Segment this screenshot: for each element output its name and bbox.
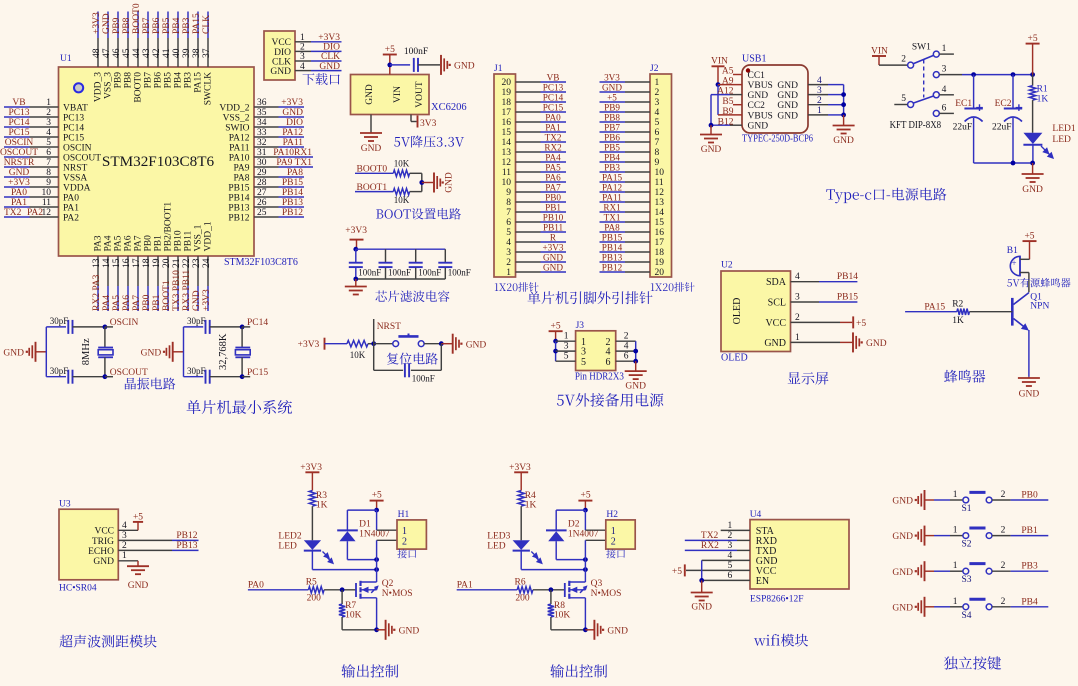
resistor 10K BOOT1 — [393, 188, 409, 204]
svg-text:PB0: PB0 — [545, 192, 561, 202]
ultrasonic U3 designator — [59, 500, 71, 510]
usb pin1 mark — [746, 68, 750, 72]
header J1 pin 12 net PA4 — [502, 152, 567, 168]
svg-text:2: 2 — [46, 108, 51, 118]
svg-text:J3: J3 — [576, 321, 585, 331]
svg-text:8: 8 — [46, 168, 51, 178]
svg-text:4: 4 — [817, 76, 822, 86]
usb pin A5 CC1 — [722, 67, 765, 81]
wire diode top — [556, 510, 585, 530]
svg-text:Pin HDR2X3: Pin HDR2X3 — [575, 372, 624, 383]
svg-text:PB15: PB15 — [228, 183, 249, 193]
svg-text:R6: R6 — [515, 577, 526, 587]
mcu pin 39 PB3 wire+net — [182, 12, 193, 89]
header J2 pin 2 net GND — [600, 82, 660, 98]
power +5 buzzer — [1023, 232, 1037, 260]
switch pin5 contact — [894, 94, 913, 108]
svg-text:LED: LED — [278, 542, 297, 552]
svg-text:PB8: PB8 — [122, 17, 132, 34]
net VIN label sw — [871, 47, 888, 57]
svg-text:45: 45 — [122, 48, 132, 58]
svg-text:6: 6 — [46, 148, 51, 158]
header J3 row 3/4 — [556, 342, 636, 358]
svg-text:10K: 10K — [345, 611, 362, 621]
crystal 32,768K body — [235, 327, 250, 377]
svg-text:3V3: 3V3 — [420, 119, 437, 129]
wire cap to node top 32,768K — [210, 326, 242, 328]
led LED1 arrows — [1041, 146, 1053, 158]
cap plates bottom 32,768K — [187, 366, 210, 384]
wire cap to node bottom 32,768K — [210, 376, 242, 378]
svg-text:PB3: PB3 — [604, 162, 620, 172]
svg-text:1: 1 — [655, 78, 660, 88]
mcu pin 17 PA7 wire+net — [132, 235, 143, 311]
ground earth at regulator — [360, 133, 382, 154]
header J2 pin 15 net TX1 — [600, 212, 665, 228]
svg-text:S2: S2 — [962, 540, 972, 550]
usb pin 4 GND right — [777, 76, 843, 91]
mcu pin 33 PA12 wire+net — [229, 128, 304, 143]
wire S2 to net — [992, 535, 1048, 537]
svg-text:GND: GND — [3, 348, 24, 358]
svg-text:PA0: PA0 — [545, 112, 561, 122]
wire gnd to S3 — [925, 570, 963, 572]
wire +5 to H1 pin1 — [377, 510, 397, 530]
svg-text:2: 2 — [624, 332, 629, 342]
mcu pin 48 VDD_3 wire+net — [92, 12, 103, 103]
download port pin 1 VCC — [271, 33, 341, 48]
svg-text:U3: U3 — [59, 500, 71, 510]
button S4 pin2 number — [1001, 597, 1006, 607]
svg-text:4: 4 — [122, 521, 127, 531]
mcu pin 2 PC13 wire+net — [4, 108, 84, 123]
button S2 pin1 number — [953, 526, 958, 536]
svg-text:GND: GND — [748, 122, 769, 132]
wire node to button — [374, 343, 393, 345]
wire gnd to S2 — [925, 535, 963, 537]
svg-text:VDD_2: VDD_2 — [219, 103, 249, 113]
wire diode top — [347, 510, 376, 530]
resistor R8 10K — [548, 590, 571, 630]
led LED3 labels — [487, 532, 510, 552]
gnd bars S3 — [892, 561, 924, 581]
oled GND wire — [791, 341, 853, 343]
header J3 part — [575, 372, 624, 383]
svg-text:PA0: PA0 — [11, 188, 27, 198]
net NRST vertical — [374, 319, 401, 344]
svg-text:GND: GND — [833, 136, 854, 146]
svg-text:PB6: PB6 — [152, 17, 162, 34]
caption buzzer — [944, 370, 985, 383]
svg-text:PA6: PA6 — [122, 295, 132, 311]
wire BOOT vertical — [421, 173, 423, 191]
wire diode bottom — [347, 541, 376, 559]
svg-text:PA11: PA11 — [283, 138, 304, 148]
svg-text:PB4: PB4 — [604, 152, 620, 162]
header J1 pin 11 net PA5 — [502, 162, 566, 178]
svg-text:16: 16 — [655, 228, 665, 238]
header J1 pin 8 net PB0 — [506, 192, 566, 208]
wire cap to node top 8MHz — [73, 326, 105, 328]
capacitor 30pF bottom 32,768K — [184, 376, 204, 378]
svg-text:12: 12 — [502, 158, 512, 168]
svg-text:PA9 TX1: PA9 TX1 — [276, 158, 312, 168]
svg-text:PA11: PA11 — [602, 192, 622, 202]
buzzer B1 body — [1010, 256, 1020, 275]
svg-text:6: 6 — [942, 103, 947, 113]
diode D1 1N4007 — [337, 520, 390, 542]
wire emitter down — [1028, 330, 1030, 377]
svg-text:GND: GND — [764, 338, 786, 349]
svg-text:4: 4 — [655, 108, 660, 118]
power +5 typec — [1026, 34, 1040, 75]
svg-text:TX1: TX1 — [604, 212, 621, 222]
caption reset circuit — [387, 353, 438, 365]
wire H1 pin2 to drain — [377, 540, 397, 581]
wifi U4 body — [750, 520, 849, 589]
mcu pin 18 PB0 wire+net — [142, 235, 153, 311]
svg-text:2: 2 — [795, 313, 800, 323]
svg-text:+5: +5 — [856, 319, 866, 329]
svg-text:B9: B9 — [722, 107, 733, 117]
capacitor 30pF bottom 8MHz — [46, 376, 66, 378]
svg-text:ECHO: ECHO — [88, 547, 114, 557]
svg-text:GND: GND — [319, 62, 340, 72]
net PA0 wire — [248, 581, 309, 591]
caption output control Q2 — [341, 664, 398, 677]
svg-text:+5: +5 — [672, 567, 682, 577]
svg-text:PB3: PB3 — [182, 17, 192, 34]
svg-text:OSCIN: OSCIN — [110, 318, 139, 328]
svg-text:PC13: PC13 — [543, 82, 564, 92]
regulator GND lead — [370, 115, 372, 134]
diode D2 1N4007 — [546, 520, 599, 542]
svg-text:15: 15 — [655, 218, 665, 228]
svg-text:8: 8 — [655, 148, 660, 158]
svg-text:NRST: NRST — [63, 163, 87, 173]
svg-text:GND: GND — [607, 626, 628, 636]
gnd bars crystal 32,768K — [141, 342, 173, 362]
led LED1 — [1023, 133, 1042, 163]
junction led bottom — [1030, 161, 1035, 166]
svg-text:VB: VB — [12, 98, 25, 108]
button S2 — [962, 528, 992, 550]
svg-text:14: 14 — [655, 208, 665, 218]
svg-text:22: 22 — [182, 258, 192, 268]
svg-text:42: 42 — [152, 48, 162, 58]
svg-text:21: 21 — [172, 258, 182, 268]
svg-text:PA12: PA12 — [602, 182, 622, 192]
svg-text:PB12: PB12 — [282, 208, 303, 218]
wifi pin 5 VCC — [686, 561, 777, 577]
svg-text:2: 2 — [300, 43, 305, 53]
svg-text:9: 9 — [506, 188, 511, 198]
header J2 pin 12 net PA12 — [600, 182, 665, 198]
svg-text:PB10: PB10 — [543, 212, 564, 222]
svg-text:H1: H1 — [398, 510, 410, 520]
mcu pin 45 PB8 wire+net — [122, 12, 133, 89]
junction top 8MHz — [103, 325, 108, 330]
svg-text:37: 37 — [202, 48, 212, 58]
svg-text:GND: GND — [748, 91, 769, 101]
wire A9-B9 vertical — [717, 85, 719, 115]
svg-text:CC1: CC1 — [748, 71, 766, 81]
svg-text:VDD_3: VDD_3 — [94, 72, 104, 102]
ultrasonic pin2 ECHO — [88, 541, 198, 557]
wire to gnd bars Q2 — [377, 629, 385, 631]
svg-text:30pF: 30pF — [187, 366, 206, 376]
svg-text:PB9: PB9 — [114, 72, 124, 89]
usb pin 1 GND right — [777, 106, 843, 121]
svg-text:PA5: PA5 — [112, 295, 122, 311]
svg-text:5: 5 — [901, 94, 906, 104]
resistor 10K BOOT0 — [393, 159, 409, 177]
svg-text:12: 12 — [655, 188, 665, 198]
svg-text:1: 1 — [300, 33, 305, 43]
buzzer name — [1007, 278, 1070, 287]
header J2 designator — [650, 64, 659, 74]
svg-text:D2: D2 — [568, 520, 580, 530]
svg-text:18: 18 — [655, 248, 665, 258]
svg-text:GND: GND — [892, 497, 913, 507]
wire B12 to earth — [710, 125, 712, 134]
mcu pin 36 VDD_2 wire+net — [219, 98, 304, 113]
regulator label VIN — [393, 86, 403, 103]
svg-text:30pF: 30pF — [50, 366, 69, 376]
svg-text:+5: +5 — [1028, 34, 1038, 44]
svg-text:38: 38 — [192, 48, 202, 58]
svg-text:PB1: PB1 — [154, 235, 164, 252]
svg-text:17: 17 — [132, 258, 142, 268]
svg-text:PA7: PA7 — [134, 235, 144, 251]
connector H1 body — [397, 520, 426, 549]
mcu pin 9 VDDA wire+net — [4, 178, 91, 193]
ground earth J3 — [625, 371, 647, 391]
svg-text:PA4: PA4 — [104, 235, 114, 251]
mcu pin 28 PB15 wire+net — [228, 178, 304, 193]
svg-text:PB0: PB0 — [142, 294, 152, 311]
transistor Q2 labels — [382, 579, 413, 599]
svg-text:RX2: RX2 — [544, 142, 562, 152]
svg-text:GND: GND — [466, 340, 487, 350]
svg-text:16: 16 — [122, 258, 132, 268]
svg-text:OLED: OLED — [732, 298, 743, 325]
svg-text:PB5: PB5 — [604, 142, 620, 152]
svg-text:GND: GND — [361, 144, 382, 154]
svg-text:1: 1 — [953, 490, 958, 500]
header J2 body — [650, 74, 672, 277]
svg-text:GND: GND — [543, 252, 563, 262]
svg-text:RX3 PB11: RX3 PB11 — [182, 270, 192, 311]
caption type-c power — [826, 188, 946, 204]
button S1 pin1 number — [953, 490, 958, 500]
mcu pin 29 PA8 wire+net — [233, 168, 304, 183]
wire S4 to net — [992, 606, 1048, 608]
svg-text:PB5: PB5 — [162, 17, 172, 34]
svg-text:ESP8266•12F: ESP8266•12F — [750, 595, 803, 605]
svg-text:OSCIN: OSCIN — [63, 143, 92, 153]
usb pin B12 GND — [711, 117, 768, 131]
wire usb gnd to earth — [843, 115, 845, 126]
svg-text:PA2: PA2 — [27, 208, 43, 218]
svg-text:PC15: PC15 — [543, 102, 564, 112]
mcu pin 4 PC15 wire+net — [4, 128, 84, 143]
button S4 — [962, 599, 992, 621]
svg-text:1K: 1K — [1037, 95, 1049, 105]
svg-text:XC6206: XC6206 — [431, 102, 467, 113]
connector H1 pins — [402, 526, 407, 548]
svg-text:GND: GND — [270, 67, 291, 77]
svg-text:SCL: SCL — [768, 297, 786, 308]
mcu pin 13 PA3 wire+net — [92, 235, 103, 311]
power +5 ultrasonic — [133, 512, 143, 522]
svg-text:+5: +5 — [1024, 232, 1034, 242]
wire VIN vertical — [717, 66, 719, 84]
svg-text:GND: GND — [102, 13, 112, 34]
gnd bars reset — [453, 334, 487, 354]
svg-text:4: 4 — [46, 128, 51, 138]
svg-text:S1: S1 — [962, 504, 972, 514]
led LED2 — [304, 540, 321, 569]
svg-text:EC2: EC2 — [995, 99, 1012, 109]
junction reset — [371, 341, 376, 346]
net OSCOUT label — [105, 368, 148, 378]
svg-text:PB0: PB0 — [144, 235, 154, 252]
header J3 designator — [576, 321, 585, 331]
mcu pin 22 PB11 wire+net — [182, 230, 193, 311]
header J1 pin 5 net PB11 — [506, 222, 566, 238]
gnd bars S1 — [892, 490, 924, 510]
svg-text:GND: GND — [399, 626, 420, 636]
mcu pin 11 PA1 wire+net — [4, 198, 79, 213]
junction diode D1 — [374, 557, 379, 562]
ground earth usb right — [833, 126, 855, 147]
wire S3 to net — [992, 570, 1048, 572]
usb pin B5 CC2 — [722, 97, 765, 111]
mcu U1 pin-1 mark — [74, 83, 83, 92]
junction usb gnd 3 — [841, 92, 846, 97]
ground earth filter — [345, 287, 367, 295]
svg-text:PA8: PA8 — [604, 222, 620, 232]
oled name below — [721, 353, 748, 364]
wire to 100nF cap — [390, 64, 410, 66]
wire diode bottom — [556, 541, 585, 559]
svg-text:PC15: PC15 — [63, 133, 84, 143]
svg-text:47: 47 — [102, 48, 112, 58]
svg-text:17: 17 — [655, 238, 665, 248]
usb pin A12 GND — [711, 87, 768, 101]
svg-text:1: 1 — [611, 526, 616, 537]
regulator label VOUT — [415, 81, 425, 108]
svg-text:25: 25 — [257, 208, 267, 218]
svg-text:1: 1 — [564, 332, 569, 342]
led LED2 arrows — [323, 552, 334, 564]
svg-text:40: 40 — [172, 48, 182, 58]
power +5 wifi — [672, 564, 685, 576]
svg-text:+3V3: +3V3 — [92, 12, 102, 34]
svg-text:1: 1 — [953, 526, 958, 536]
svg-text:2: 2 — [901, 55, 906, 65]
power +3V3 R3 — [300, 463, 322, 491]
switch pin3 contact — [933, 65, 962, 78]
header J2 pin 3 net +5 — [600, 92, 660, 108]
switch SW1 designator — [912, 43, 931, 53]
svg-text:PA8: PA8 — [287, 168, 303, 178]
net OSCIN label — [105, 318, 139, 328]
ground earth buzzer — [1018, 378, 1040, 400]
svg-text:11: 11 — [42, 198, 51, 208]
mcu pin 23 VSS_1 wire+net — [192, 224, 203, 311]
svg-text:3: 3 — [795, 293, 800, 303]
svg-text:2: 2 — [611, 536, 616, 547]
svg-text:1K: 1K — [316, 501, 328, 511]
button S4 pin1 number — [953, 597, 958, 607]
transistor Q1 collector — [1014, 293, 1029, 305]
mcu U1 body — [59, 67, 255, 256]
svg-text:PA9: PA9 — [233, 163, 249, 173]
svg-text:VIN: VIN — [393, 86, 403, 103]
header J1 pin 7 net PB1 — [506, 202, 566, 218]
svg-text:PC14: PC14 — [63, 123, 84, 133]
crystal 8MHz body — [98, 327, 113, 377]
resistor R5 200 — [306, 577, 324, 603]
header J2 pin 4 net PB9 — [600, 102, 660, 118]
wire BOOT to gnd — [422, 182, 433, 184]
svg-text:GND: GND — [9, 168, 30, 178]
header J2 pin 17 net PB15 — [600, 232, 665, 248]
svg-text:100nF: 100nF — [448, 268, 471, 278]
svg-text:GND: GND — [892, 532, 913, 542]
svg-text:R7: R7 — [345, 601, 356, 611]
junction +5 H1 — [374, 508, 379, 513]
svg-text:RX1: RX1 — [603, 202, 621, 212]
connector H2 pins — [611, 526, 616, 548]
switch lever 2-1 — [913, 55, 934, 64]
svg-text:VCC: VCC — [765, 318, 786, 329]
button S3 — [962, 564, 992, 586]
net PC14 label — [242, 318, 268, 328]
header J2 pin 19 net PB13 — [600, 252, 665, 268]
oled VCC wire to +5 — [791, 316, 867, 329]
svg-text:PB8: PB8 — [604, 112, 620, 122]
svg-text:+5: +5 — [385, 45, 395, 55]
gnd bars oled — [853, 332, 887, 352]
svg-text:48: 48 — [92, 48, 102, 58]
mcu pin 32 PA11 wire+net — [229, 138, 304, 153]
svg-text:PB6: PB6 — [154, 72, 164, 89]
svg-text:PA12: PA12 — [229, 133, 250, 143]
gnd bars S2 — [892, 526, 924, 546]
header J1 pin 6 net PB10 — [506, 212, 566, 228]
led LED2 labels — [278, 532, 301, 552]
mcu U1 part number label — [224, 257, 298, 268]
header J1 pin 19 net PC13 — [502, 82, 567, 98]
svg-text:44: 44 — [132, 48, 142, 58]
oled pin 1 GND — [764, 333, 800, 349]
svg-text:GND: GND — [1022, 185, 1043, 195]
svg-text:4: 4 — [795, 272, 800, 282]
svg-text:1K: 1K — [952, 316, 964, 326]
net PA1 wire — [457, 581, 518, 591]
svg-text:27: 27 — [257, 188, 267, 198]
svg-text:PB1: PB1 — [1021, 526, 1038, 536]
download port pin 4 GND — [270, 62, 341, 77]
svg-text:+5: +5 — [581, 491, 591, 501]
wire bottom rail Q2 — [342, 629, 377, 631]
mcu pin 44 BOOT0 wire+net — [132, 3, 143, 102]
svg-text:GND: GND — [777, 91, 798, 101]
header J2 pin 9 net PB4 — [600, 152, 660, 168]
